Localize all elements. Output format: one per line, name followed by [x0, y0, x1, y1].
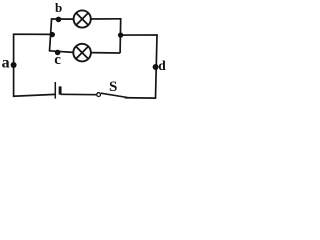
svg-text:a: a — [2, 54, 10, 71]
svg-text:c: c — [54, 52, 61, 68]
svg-text:S: S — [109, 79, 117, 95]
svg-text:b: b — [55, 0, 62, 15]
svg-text:d: d — [158, 58, 166, 73]
